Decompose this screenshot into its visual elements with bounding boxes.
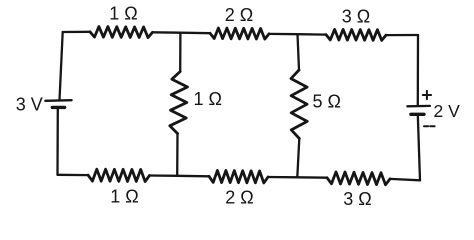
resistor 1-ohm bottom [88,169,150,181]
svg-text:5 Ω: 5 Ω [313,92,341,112]
svg-text:1 Ω: 1 Ω [194,89,222,109]
label 2-ohm top [225,5,253,25]
battery V1 positive plate [45,99,71,102]
node D (bottom junction of 5-ohm branch) [268,176,297,179]
wire bottom (node C to R5) [177,175,209,178]
label minus sign of V2 [424,125,435,127]
node C (bottom junction of 1-ohm branch) [150,174,178,177]
svg-text:3 Ω: 3 Ω [342,7,370,27]
label 3-ohm bottom [343,189,371,209]
wire top (R2 to node B) [269,33,298,36]
node A (top junction of 1-ohm branch) [180,32,210,35]
battery V1 negative plate [52,106,64,109]
resistor 1-ohm middle vertical [170,72,188,134]
wire branch B lower (Rv2 down to node D) [297,139,299,178]
svg-text:1 Ω: 1 Ω [109,4,137,24]
label 1-ohm middle [194,89,222,109]
svg-text:3 V: 3 V [16,95,43,115]
label 3-ohm top [342,7,370,27]
wire right upper (corner down to battery V2) [417,35,420,105]
label 3 V [16,95,43,115]
wire left upper (battery V1 up to corner) [60,32,63,100]
wire right lower (battery V2 to corner) [418,115,420,181]
resistor 2-ohm top [210,28,269,39]
node B (top junction of 5-ohm branch) [298,33,327,36]
svg-text:2 Ω: 2 Ω [225,5,253,25]
resistor 3-ohm bottom [327,172,390,185]
svg-text:1 Ω: 1 Ω [110,187,138,207]
svg-text:2 Ω: 2 Ω [225,188,253,208]
wire left lower (corner up to battery V1) [56,108,59,175]
wire bottom-right (corner to R6) [390,179,420,180]
wire top-left (corner to R1) [63,31,90,34]
wire bottom (R6 to node D) [297,176,327,179]
battery V2 negative plate [411,113,424,116]
wire top (R1 to node A) [153,31,181,34]
label plus sign of V2 [423,91,431,99]
label 1-ohm bottom [110,187,138,207]
resistor 1-ohm top [90,27,153,38]
resistor 3-ohm top [326,29,386,40]
wire branch A upper (node A down to Rv1) [179,33,181,72]
resistor 2-ohm bottom [209,170,268,183]
resistor 5-ohm middle vertical [291,70,307,139]
label 5-ohm middle [313,92,341,112]
wire bottom-left (R4 to corner) [58,174,89,177]
label 2-ohm bottom [225,188,253,208]
label 2 V [434,101,461,121]
wire top-right (R3 to corner) [386,34,418,36]
wire branch B upper (node B down to Rv2) [298,34,300,70]
label 1-ohm top [109,4,137,24]
svg-text:2 V: 2 V [434,101,461,121]
svg-text:3 Ω: 3 Ω [343,189,371,209]
battery V2 positive plate [407,105,430,108]
wire branch A lower (Rv1 down to node C) [176,134,179,176]
